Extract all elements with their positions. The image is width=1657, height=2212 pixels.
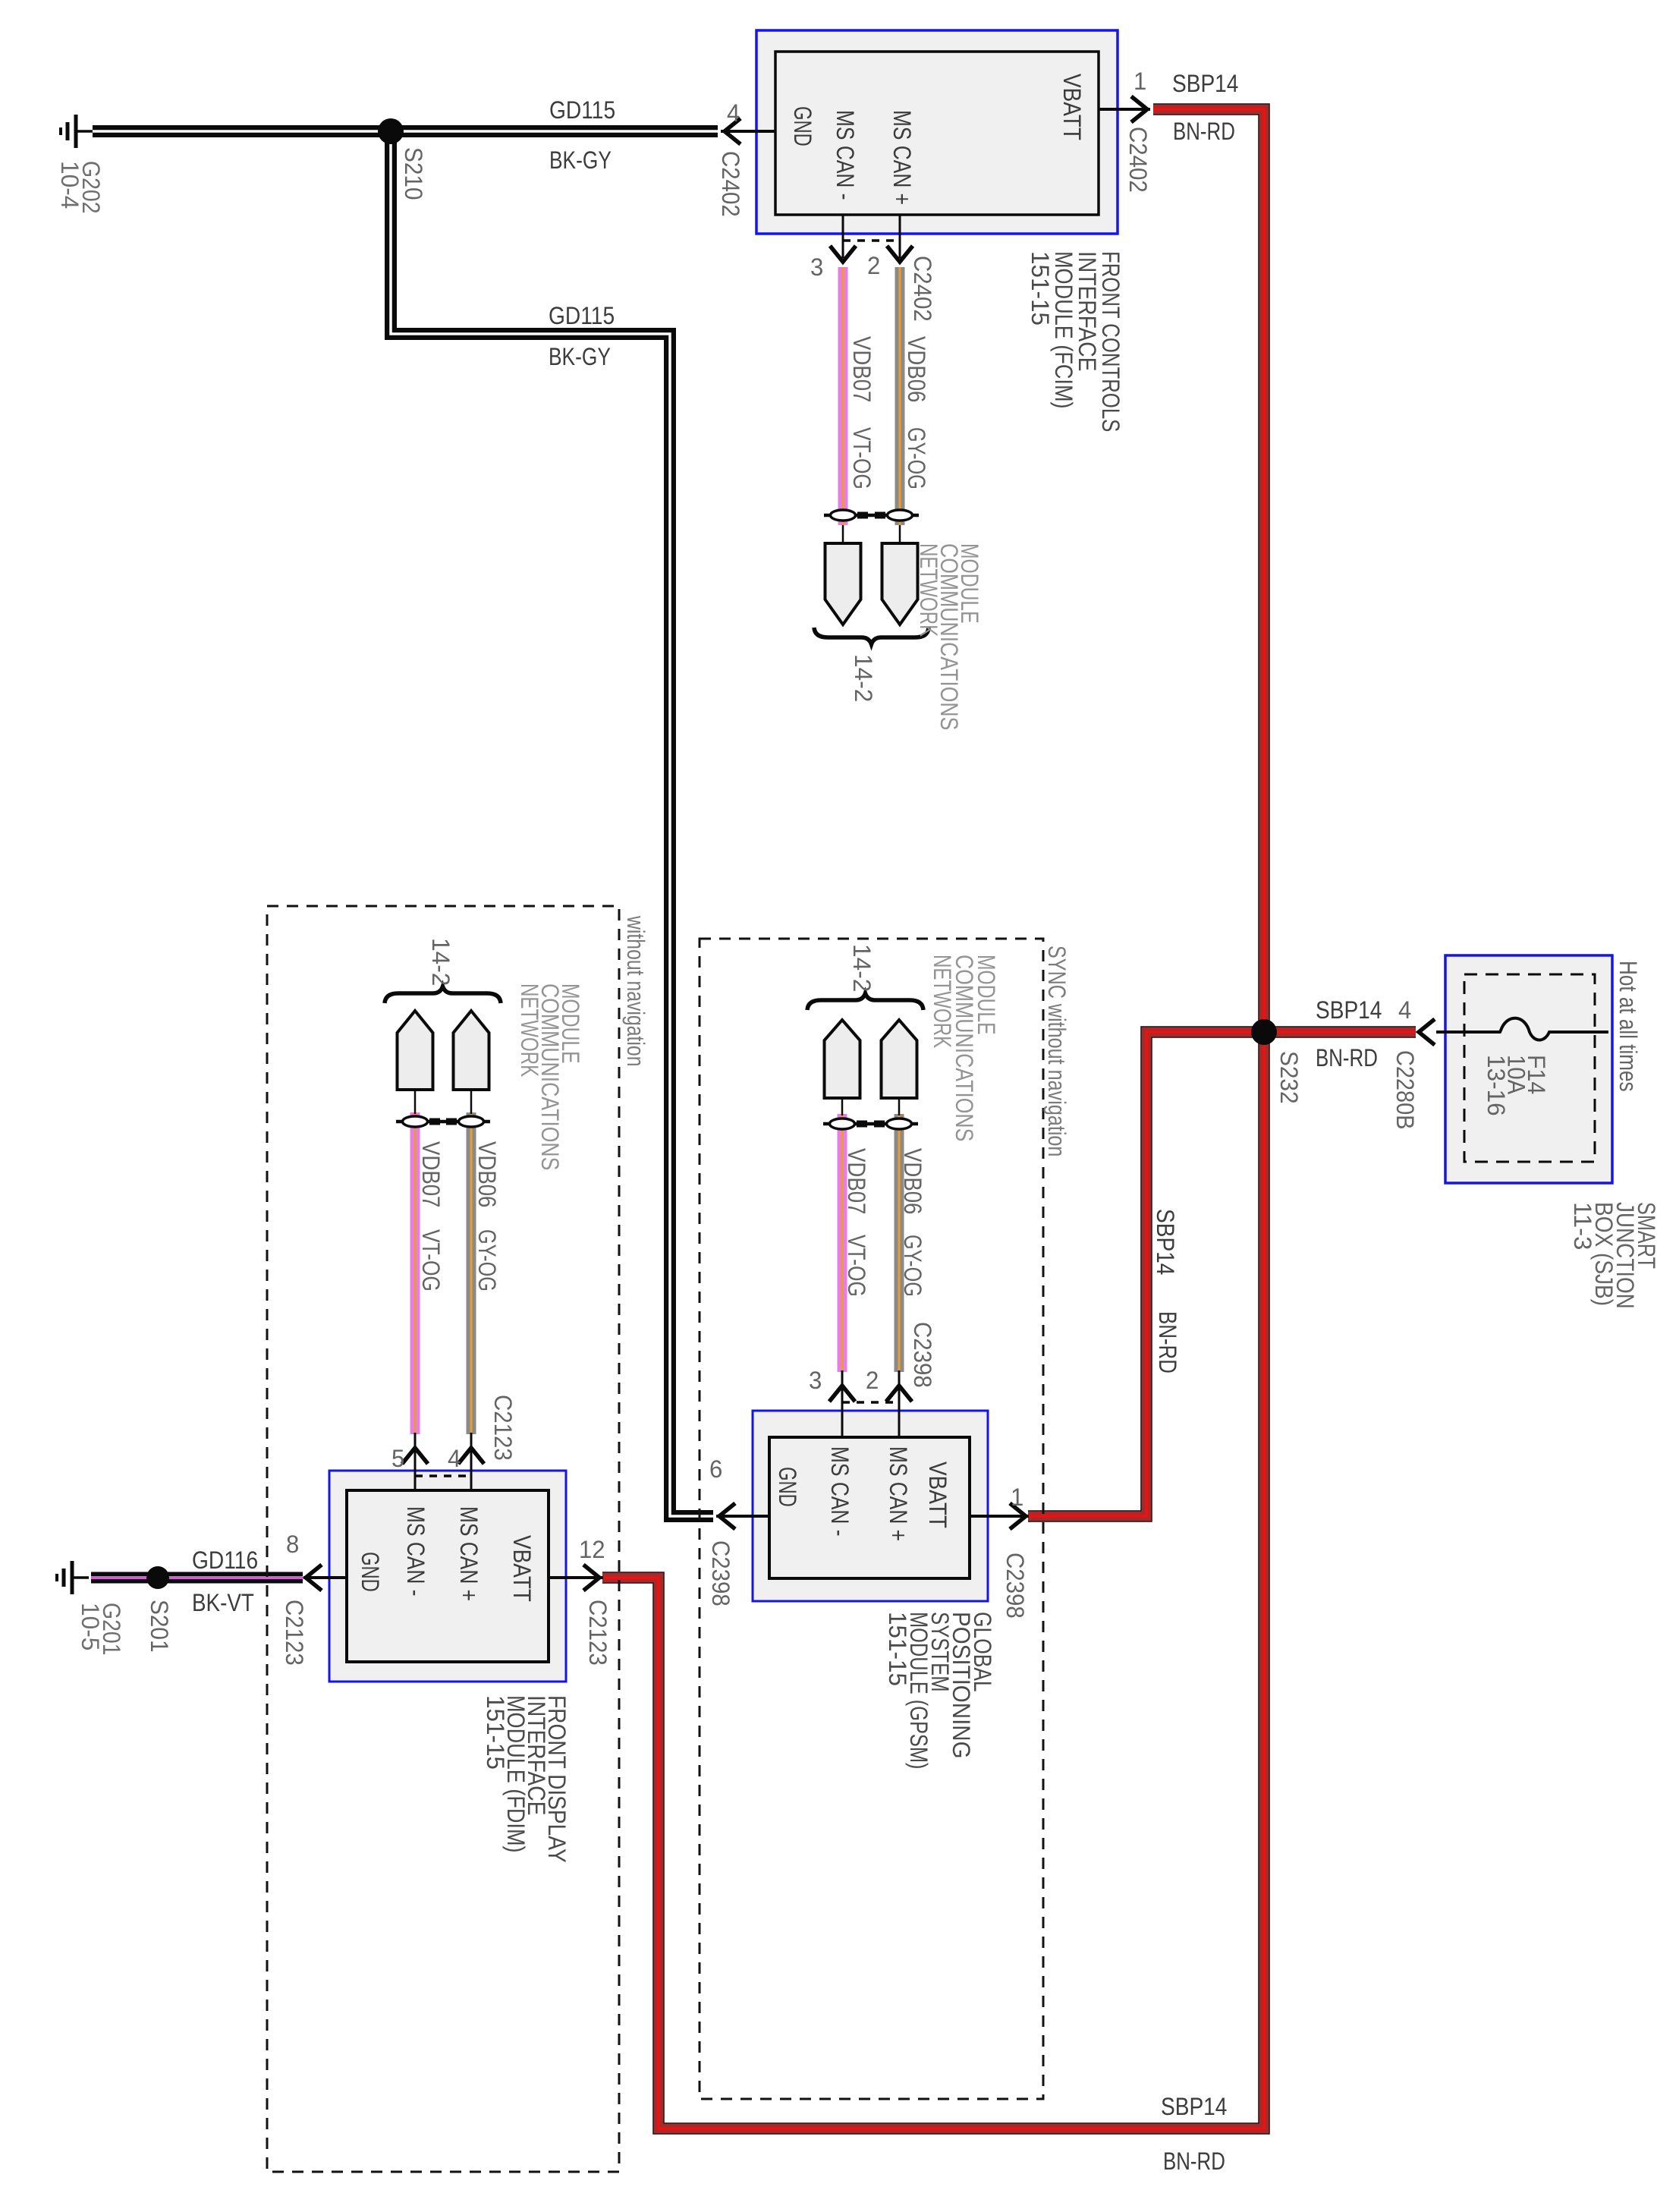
svg-text:1: 1	[1133, 68, 1146, 95]
svg-text:SBP14: SBP14	[1161, 2093, 1227, 2120]
twisted pair symbol (FCIM)	[824, 514, 919, 518]
svg-text:BN-RD: BN-RD	[1173, 118, 1235, 145]
GPSM pin 1 stub wire	[970, 1515, 1029, 1518]
svg-text:151-15: 151-15	[482, 1695, 509, 1770]
FDIM pin 4 connector arrow	[458, 1448, 484, 1464]
GPSM pink wire lower stub	[841, 1370, 844, 1389]
svg-text:MS CAN +: MS CAN +	[885, 1446, 912, 1541]
svg-text:12: 12	[579, 1536, 605, 1563]
svg-text:NETWORK: NETWORK	[516, 983, 543, 1077]
svg-text:VT-OG: VT-OG	[417, 1229, 445, 1292]
svg-text:BN-RD: BN-RD	[1163, 2147, 1225, 2175]
GPSM C2398 connector dashed tie	[842, 1401, 899, 1404]
SJB fuse dashed box	[1464, 974, 1595, 1162]
GPSM pin 6 stub wire	[716, 1515, 769, 1518]
module FDIM inner box	[347, 1490, 549, 1662]
module FDIM: FRONT DISPLAY INTERFACE MODULE outer box	[329, 1471, 566, 1682]
svg-text:VDB07: VDB07	[843, 1148, 870, 1214]
dashed option box: SYNC without navigation (GPSM)	[700, 939, 1043, 2099]
svg-text:VDB06: VDB06	[903, 336, 930, 402]
ground G201	[71, 1561, 74, 1594]
svg-text:VT-OG: VT-OG	[843, 1235, 870, 1297]
svg-text:without navigation: without navigation	[622, 915, 649, 1066]
module GPSM: GLOBAL POSITIONING SYSTEM MODULE outer box	[753, 1411, 988, 1601]
svg-text:SBP14: SBP14	[1172, 70, 1238, 97]
svg-text:MS CAN -: MS CAN -	[402, 1506, 429, 1597]
GPSM pin 2 connector arrow	[886, 1386, 912, 1402]
svg-text:13-16: 13-16	[1482, 1055, 1510, 1116]
splice S232	[1251, 1019, 1277, 1045]
FDIM gray wire lower stub	[470, 1433, 473, 1451]
FCIM pin 3 stub wire	[842, 215, 844, 258]
svg-text:S210: S210	[400, 147, 427, 200]
FDIM pin 8 stub wire	[303, 1576, 347, 1579]
svg-text:BK-VT: BK-VT	[192, 1589, 254, 1616]
module GPSM inner box	[769, 1437, 970, 1578]
FDIM pin 12 stub wire	[549, 1576, 603, 1579]
svg-text:151-15: 151-15	[884, 1612, 911, 1686]
FDIM C2123 connector dashed tie	[415, 1474, 471, 1477]
svg-text:GD115: GD115	[549, 302, 615, 329]
off-page connector pentagon (FCIM VDB06)	[882, 543, 918, 625]
stub to off-page connector (FCIM left)	[842, 525, 844, 543]
stub to off-page connector (GPSM left)	[841, 1098, 844, 1115]
svg-text:1: 1	[1011, 1484, 1023, 1511]
svg-text:C2402: C2402	[717, 151, 744, 217]
svg-text:C2398: C2398	[707, 1540, 734, 1606]
svg-text:GND: GND	[774, 1467, 801, 1507]
svg-text:4: 4	[727, 99, 740, 127]
svg-text:C2123: C2123	[489, 1395, 517, 1461]
GPSM pin 1 connector arrow C2398	[1010, 1503, 1026, 1529]
svg-text:S232: S232	[1275, 1051, 1303, 1104]
GPSM gray wire lower stub	[898, 1370, 901, 1389]
wire GD115 BK-GY branch: S210 splice down and across to GPSM pin 6	[391, 131, 713, 1516]
svg-text:BK-GY: BK-GY	[549, 343, 611, 370]
svg-text:VDB07: VDB07	[848, 336, 876, 402]
FDIM pink wire lower stub	[414, 1433, 417, 1451]
stub to off-page connector (FDIM right)	[470, 1090, 473, 1114]
GPSM pin 2 stub wire	[898, 1389, 901, 1437]
wire SBP14 BN-RD spur: SJB fuse F14 through S232 to GPSM pin 1	[1028, 1032, 1416, 1516]
svg-text:3: 3	[810, 253, 823, 281]
svg-text:VDB06: VDB06	[473, 1141, 501, 1207]
SJB: SMART JUNCTION BOX outer box	[1445, 955, 1612, 1183]
off-page connector pentagon (FDIM VDB06)	[454, 1011, 489, 1090]
svg-text:GD115: GD115	[549, 96, 615, 124]
wire GD115 BK-GY run: G202 ground to FCIM pin 4	[93, 125, 718, 137]
wire VDB07 VT-OG (FCIM MS CAN -)	[838, 267, 848, 525]
svg-text:8: 8	[286, 1531, 299, 1558]
FCIM pin 4 stub wire	[721, 130, 775, 133]
svg-text:10-5: 10-5	[77, 1603, 104, 1650]
svg-text:NETWORK: NETWORK	[929, 955, 956, 1048]
off-page connector pentagon (GPSM VDB07)	[825, 1020, 860, 1098]
FDIM pin 8 connector arrow C2123	[306, 1565, 322, 1591]
svg-text:14-2: 14-2	[427, 938, 454, 986]
svg-text:BN-RD: BN-RD	[1154, 1311, 1181, 1373]
GPSM pin 6 connector arrow C2398	[719, 1503, 735, 1529]
svg-text:MS CAN +: MS CAN +	[455, 1506, 483, 1601]
wire VDB07 VT-OG (FDIM)	[410, 1112, 420, 1434]
FCIM pin 2 stub wire	[899, 215, 901, 258]
brace 14-2 (FCIM)	[814, 628, 929, 644]
svg-text:VBATT: VBATT	[1058, 74, 1086, 140]
svg-text:6: 6	[709, 1455, 722, 1483]
twisted pair symbol (GPSM)	[823, 1122, 918, 1126]
brace 14-2 (FDIM)	[385, 986, 501, 1003]
fuse F14 10A element	[1436, 1018, 1608, 1040]
FDIM pin 12 connector arrow C2123	[583, 1565, 599, 1591]
module FCIM: FRONT CONTROLS INTERFACE MODULE outer box	[756, 30, 1118, 234]
svg-text:C2123: C2123	[281, 1600, 308, 1666]
svg-text:S201: S201	[146, 1600, 173, 1653]
svg-text:10-4: 10-4	[56, 161, 83, 209]
wire VDB07 VT-OG (GPSM)	[838, 1114, 847, 1372]
wire VDB06 GY-OG (FCIM MS CAN +)	[895, 267, 905, 525]
svg-text:GND: GND	[789, 106, 816, 146]
wire VDB06 GY-OG (FDIM)	[467, 1112, 476, 1434]
FCIM C2402 connector dashed tie	[843, 239, 900, 242]
ground G202	[74, 115, 78, 148]
FCIM pin 4 connector arrow C2402	[725, 118, 740, 144]
svg-text:GND: GND	[357, 1552, 384, 1592]
svg-text:GY-OG: GY-OG	[903, 427, 930, 489]
off-page connector pentagon (GPSM VDB06)	[882, 1020, 917, 1098]
stub to off-page connector (GPSM right)	[898, 1098, 901, 1115]
svg-text:C2280B: C2280B	[1391, 1050, 1419, 1129]
svg-text:SYNC without navigation: SYNC without navigation	[1043, 946, 1071, 1156]
svg-text:14-2: 14-2	[850, 654, 877, 702]
svg-text:VBATT: VBATT	[924, 1462, 951, 1528]
dashed option box: without navigation (FDIM)	[267, 906, 619, 2172]
svg-text:2: 2	[866, 1367, 879, 1394]
svg-text:MS CAN -: MS CAN -	[832, 110, 859, 200]
splice S201	[146, 1566, 169, 1589]
FCIM pin 2 connector arrow	[887, 246, 913, 262]
off-page connector pentagon (FDIM VDB07)	[398, 1011, 433, 1090]
svg-text:NETWORK: NETWORK	[915, 543, 942, 637]
svg-text:C2402: C2402	[909, 256, 936, 322]
wire GD116 BK-VT: G201 ground to FDIM pin 8	[91, 1572, 303, 1584]
svg-text:C2402: C2402	[1124, 127, 1152, 193]
brace 14-2 (GPSM)	[807, 993, 923, 1010]
svg-text:VBATT: VBATT	[508, 1535, 536, 1602]
splice S210	[378, 118, 404, 144]
svg-text:SBP14: SBP14	[1316, 996, 1382, 1024]
svg-text:C2398: C2398	[909, 1322, 936, 1388]
SJB pin 4 connector arrow C2280B	[1419, 1019, 1435, 1045]
FDIM pin 5 connector arrow	[402, 1448, 428, 1464]
svg-text:11-3: 11-3	[1569, 1202, 1596, 1250]
svg-text:14-2: 14-2	[848, 944, 876, 992]
svg-text:5: 5	[391, 1445, 404, 1472]
svg-text:GY-OG: GY-OG	[473, 1229, 501, 1292]
svg-text:VDB06: VDB06	[899, 1148, 926, 1214]
svg-text:MS CAN -: MS CAN -	[826, 1446, 854, 1537]
svg-text:Hot at all times: Hot at all times	[1615, 961, 1642, 1092]
twisted pair symbol (FDIM)	[396, 1120, 490, 1124]
FDIM pin 5 stub wire	[414, 1451, 417, 1490]
svg-text:4: 4	[1398, 996, 1411, 1024]
svg-text:BN-RD: BN-RD	[1316, 1044, 1378, 1071]
svg-text:151-15: 151-15	[1027, 251, 1054, 326]
off-page connector pentagon (FCIM VDB07)	[825, 543, 861, 625]
svg-text:GY-OG: GY-OG	[899, 1235, 926, 1297]
GPSM pin 3 connector arrow	[829, 1386, 855, 1402]
svg-text:4: 4	[448, 1445, 461, 1472]
svg-text:VT-OG: VT-OG	[848, 427, 876, 489]
svg-text:MS CAN +: MS CAN +	[888, 110, 916, 205]
svg-text:VDB07: VDB07	[417, 1141, 445, 1207]
FCIM pin 1 stub wire	[1099, 108, 1150, 111]
FCIM pin 3 connector arrow	[830, 246, 856, 262]
svg-text:3: 3	[809, 1367, 822, 1394]
FCIM pin 1 connector arrow C2402	[1131, 96, 1147, 122]
wire SBP14 BN-RD main run: FCIM pin 1 down right side, along bottom, up to FDIM pin 12	[602, 109, 1264, 2129]
svg-text:C2123: C2123	[584, 1600, 612, 1666]
svg-text:2: 2	[867, 252, 880, 279]
module FCIM inner box	[775, 52, 1099, 215]
FDIM pin 4 stub wire	[470, 1451, 473, 1490]
wire VDB06 GY-OG (GPSM)	[895, 1114, 904, 1372]
svg-text:C2398: C2398	[1001, 1553, 1029, 1619]
svg-text:SBP14: SBP14	[1152, 1209, 1179, 1275]
svg-text:BK-GY: BK-GY	[549, 146, 612, 174]
stub to off-page connector (FCIM right)	[899, 525, 901, 543]
stub to off-page connector (FDIM left)	[414, 1090, 417, 1114]
svg-text:GD116: GD116	[192, 1547, 258, 1574]
GPSM pin 3 stub wire	[841, 1389, 844, 1437]
